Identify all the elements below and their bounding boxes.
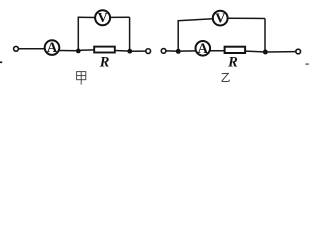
- wire voltmeter V2 to top-right corner: [228, 17, 265, 19]
- node J3 (junction): [176, 49, 181, 54]
- terminal T4 (right, circuit 乙): [296, 49, 301, 54]
- node J2 (junction): [127, 49, 132, 54]
- svg-text:R: R: [99, 55, 110, 71]
- label 甲: [77, 72, 86, 85]
- wire T3 to node J3: [166, 50, 176, 52]
- wire resistor R1 to node J2: [115, 50, 128, 53]
- wire J4 to terminal T4: [268, 51, 296, 53]
- terminal T2 (right, circuit 甲): [146, 49, 151, 54]
- resistor R2 (乙): [225, 47, 246, 53]
- wire down to node J2: [129, 17, 131, 51]
- label 乙: [222, 73, 230, 81]
- stray mark (right edge): [305, 63, 309, 65]
- svg-text:A: A: [198, 41, 209, 57]
- voltmeter V1 (甲): [95, 10, 110, 26]
- wire top-left corner to voltmeter V2: [178, 19, 214, 21]
- stray mark (left edge): [0, 62, 2, 64]
- wire J1 up: [77, 17, 79, 51]
- wire resistor R2 to node J4: [245, 50, 263, 53]
- svg-text:V: V: [215, 11, 225, 26]
- svg-text:V: V: [98, 11, 108, 26]
- wire down to node J4: [264, 19, 266, 53]
- node J1 (junction): [76, 49, 81, 54]
- wire J2 to terminal T2: [132, 50, 146, 52]
- wire ammeter A2 to resistor R2: [210, 50, 225, 52]
- terminal T3 (left, circuit 乙): [161, 49, 166, 54]
- voltmeter V2 (乙): [213, 11, 228, 27]
- wire T1 to ammeter A1: [19, 48, 45, 50]
- svg-text:A: A: [47, 40, 58, 56]
- wire top-left to voltmeter V1: [78, 16, 96, 18]
- resistor R1 (甲): [94, 47, 115, 53]
- wire J3 up: [177, 21, 179, 52]
- node J4 (junction): [263, 49, 268, 54]
- wire J3 to ammeter A2: [181, 50, 196, 52]
- wire voltmeter V1 to top-right corner: [110, 16, 130, 18]
- terminal T1 (left, circuit 甲): [14, 46, 19, 51]
- wire ammeter A1 to node J1: [59, 50, 78, 52]
- ammeter A2 (乙): [196, 41, 211, 57]
- svg-text:R: R: [227, 55, 238, 71]
- ammeter A1 (甲): [45, 40, 60, 56]
- wire J1 to resistor R1: [81, 49, 95, 51]
